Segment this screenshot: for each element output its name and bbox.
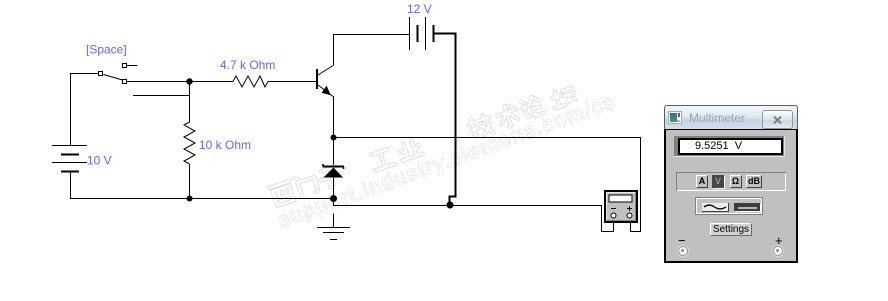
close button (762, 110, 793, 129)
wire R1 to base (268, 81, 316, 83)
wire probe plus to node C (334, 138, 641, 232)
minus label (678, 233, 686, 248)
node A junction dot (186, 78, 192, 84)
multimeter panel window (664, 105, 798, 263)
zener diode D1 (323, 164, 345, 178)
svg-text:10 V: 10 V (87, 154, 112, 168)
waveform buttons frame (695, 197, 763, 215)
minus terminal (678, 246, 688, 256)
node D junction dot (330, 195, 337, 202)
title text (689, 111, 745, 125)
panel face (664, 129, 798, 263)
svg-text:12 V: 12 V (407, 2, 432, 16)
node C junction dot (331, 135, 337, 141)
wire switch to node A (127, 81, 233, 83)
wire top-left horizontal (70, 73, 99, 75)
wire left vertical (70, 73, 72, 145)
node E junction dot (447, 202, 454, 209)
multimeter probe icon XMM1 (605, 191, 637, 222)
battery V2 12V (410, 17, 434, 50)
bottom rail wire (70, 198, 333, 200)
wire node A down to R2 (189, 81, 191, 122)
wire emitter down (333, 96, 335, 137)
title bar (664, 105, 798, 130)
battery V1 10V (52, 146, 87, 199)
wire stub below switch (133, 95, 189, 97)
display frame (674, 136, 785, 157)
svg-text:10 k Ohm: 10 k Ohm (199, 138, 251, 152)
plus terminal (773, 246, 783, 256)
wire R2 to rail (189, 164, 191, 198)
wire node D to probe minus (334, 199, 614, 232)
ground (317, 214, 350, 240)
wire collector up (334, 35, 410, 66)
resistor R2 10k zigzag (184, 122, 195, 164)
wire battery V2 to node E thick (434, 34, 456, 203)
switch J1 [Space] (99, 64, 138, 84)
transistor Q1 (317, 66, 333, 97)
window icon (668, 111, 682, 124)
settings button (710, 223, 752, 236)
plus label (775, 233, 783, 248)
wire node C to zener (333, 137, 335, 165)
svg-text:4.7 k Ohm: 4.7 k Ohm (220, 58, 275, 72)
resistor R1 4.7k zigzag (233, 76, 268, 87)
mode buttons frame (676, 172, 786, 191)
svg-text:[Space]: [Space] (86, 43, 127, 57)
wire zener to node D (333, 177, 335, 199)
node B junction dot (187, 196, 193, 202)
svg-text:support.industry.siemens.com/c: support.industry.siemens.com/cs (275, 90, 617, 232)
